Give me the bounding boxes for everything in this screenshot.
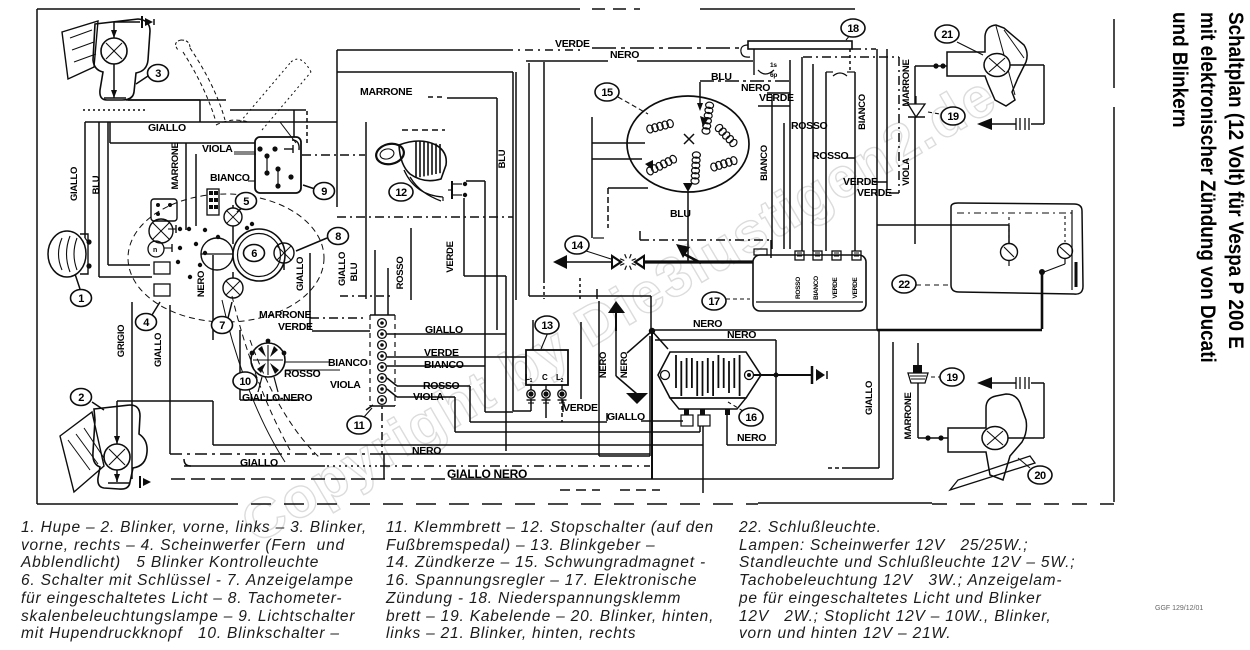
svg-text:1s: 1s bbox=[770, 62, 777, 69]
svg-text:BIANCO: BIANCO bbox=[857, 94, 868, 130]
svg-text:ROSSO: ROSSO bbox=[812, 150, 849, 162]
svg-text:VIOLA: VIOLA bbox=[330, 379, 361, 391]
svg-text:5: 5 bbox=[243, 196, 249, 208]
svg-text:10: 10 bbox=[239, 376, 251, 388]
svg-text:NERO: NERO bbox=[619, 352, 630, 378]
svg-text:BLU: BLU bbox=[91, 175, 102, 194]
svg-text:MARRONE: MARRONE bbox=[170, 143, 181, 190]
svg-text:12: 12 bbox=[395, 187, 407, 199]
svg-text:16: 16 bbox=[745, 412, 757, 424]
svg-text:MARRONE: MARRONE bbox=[360, 86, 412, 98]
svg-text:C: C bbox=[542, 373, 548, 382]
svg-text:3: 3 bbox=[155, 68, 161, 80]
svg-text:NERO: NERO bbox=[598, 352, 609, 378]
svg-text:ROSSO: ROSSO bbox=[791, 120, 828, 132]
svg-text:14: 14 bbox=[571, 240, 584, 252]
svg-text:15: 15 bbox=[601, 87, 613, 99]
svg-text:VIOLA: VIOLA bbox=[413, 391, 444, 403]
svg-text:VERDE: VERDE bbox=[857, 187, 892, 199]
svg-text:BLU: BLU bbox=[711, 71, 732, 83]
svg-text:ROSSO: ROSSO bbox=[795, 277, 802, 299]
svg-text:GIALLO: GIALLO bbox=[69, 167, 80, 201]
svg-text:GIALLO: GIALLO bbox=[240, 457, 278, 469]
svg-text:13: 13 bbox=[541, 320, 553, 332]
svg-text:VIOLA: VIOLA bbox=[202, 143, 233, 155]
svg-text:L2: L2 bbox=[556, 373, 564, 384]
svg-text:NERO: NERO bbox=[693, 318, 722, 330]
svg-text:NERO: NERO bbox=[610, 49, 639, 61]
svg-text:8: 8 bbox=[335, 231, 341, 243]
svg-text:20: 20 bbox=[1034, 470, 1046, 482]
svg-text:17: 17 bbox=[708, 296, 720, 308]
svg-text:VERDE: VERDE bbox=[424, 347, 459, 359]
svg-text:2: 2 bbox=[78, 392, 84, 404]
svg-text:6: 6 bbox=[251, 248, 257, 260]
svg-text:MARRONE: MARRONE bbox=[901, 60, 912, 107]
svg-text:MARRONE: MARRONE bbox=[903, 393, 914, 440]
svg-text:VERDE: VERDE bbox=[832, 277, 839, 299]
svg-text:ROSSO: ROSSO bbox=[284, 368, 321, 380]
svg-text:21: 21 bbox=[941, 29, 953, 41]
svg-text:BIANCO: BIANCO bbox=[210, 172, 250, 184]
svg-text:19: 19 bbox=[947, 111, 959, 123]
svg-text:11: 11 bbox=[354, 420, 365, 432]
svg-text:19: 19 bbox=[946, 372, 958, 384]
svg-text:BIANCO: BIANCO bbox=[328, 357, 368, 369]
svg-text:1: 1 bbox=[78, 293, 84, 305]
svg-text:VERDE: VERDE bbox=[852, 277, 859, 299]
svg-text:GIALLO: GIALLO bbox=[295, 257, 306, 291]
svg-text:22: 22 bbox=[898, 279, 910, 291]
svg-text:NERO: NERO bbox=[412, 445, 441, 457]
svg-text:GIALLO: GIALLO bbox=[864, 381, 875, 415]
svg-text:VERDE: VERDE bbox=[759, 92, 794, 104]
svg-text:BIANCO: BIANCO bbox=[759, 145, 770, 181]
svg-text:GIALLO: GIALLO bbox=[425, 324, 463, 336]
svg-text:9: 9 bbox=[321, 186, 327, 198]
svg-text:BIANCO: BIANCO bbox=[424, 359, 464, 371]
svg-text:MARRONE: MARRONE bbox=[259, 309, 311, 321]
svg-text:GIALLO NERO: GIALLO NERO bbox=[447, 467, 527, 481]
svg-text:GIALLO: GIALLO bbox=[607, 411, 645, 423]
svg-text:NERO: NERO bbox=[196, 271, 207, 297]
svg-text:GIALLO: GIALLO bbox=[153, 333, 164, 367]
svg-text:18: 18 bbox=[847, 23, 859, 35]
svg-text:BLU: BLU bbox=[349, 262, 360, 281]
svg-text:VERDE: VERDE bbox=[278, 321, 313, 333]
svg-text:NERO: NERO bbox=[737, 432, 766, 444]
svg-text:VERDE: VERDE bbox=[445, 241, 456, 272]
svg-text:GRIGIO: GRIGIO bbox=[116, 325, 127, 358]
svg-text:GIALLO: GIALLO bbox=[337, 252, 348, 286]
svg-text:GIALLO-NERO: GIALLO-NERO bbox=[242, 392, 312, 404]
svg-text:VERDE: VERDE bbox=[563, 402, 598, 414]
svg-text:BLU: BLU bbox=[497, 149, 508, 168]
svg-text:ROSSO: ROSSO bbox=[395, 257, 406, 290]
svg-text:6p: 6p bbox=[770, 72, 777, 79]
svg-text:BIANCO: BIANCO bbox=[813, 276, 820, 300]
svg-text:VERDE: VERDE bbox=[555, 38, 590, 50]
svg-text:GIALLO: GIALLO bbox=[148, 122, 186, 134]
svg-text:BLU: BLU bbox=[670, 208, 691, 220]
svg-text:7: 7 bbox=[219, 320, 225, 332]
svg-text:n: n bbox=[153, 247, 157, 254]
svg-text:NERO: NERO bbox=[727, 329, 756, 341]
svg-text:VIOLA: VIOLA bbox=[901, 158, 912, 186]
